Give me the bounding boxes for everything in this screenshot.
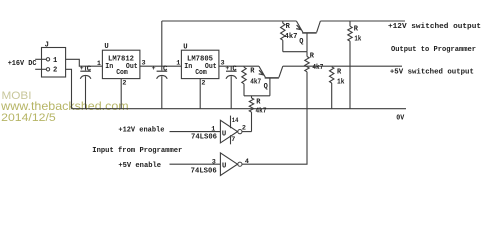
wire +12V rail left (162, 20, 297, 22)
inverter U3A pin 14 stub (230, 116, 232, 129)
svg-text:1: 1 (97, 60, 101, 68)
svg-text:In: In (184, 63, 192, 71)
svg-text:74LS06: 74LS06 (191, 168, 217, 176)
regulator U2 designator (183, 43, 187, 51)
svg-text:4: 4 (245, 158, 249, 166)
inverter U3B 74LS06 triangle (220, 153, 242, 176)
svg-text:2: 2 (53, 67, 57, 75)
inverter U3A label U (222, 130, 226, 138)
connector J pin 1 circle (46, 58, 49, 61)
svg-text:+12V switched output: +12V switched output (388, 23, 481, 31)
svg-text:1k: 1k (354, 36, 361, 44)
svg-text:Q: Q (264, 83, 268, 91)
resistor R2 value 4k7 (312, 64, 323, 72)
inverter U3A name 74LS06 (191, 134, 217, 142)
transistor Q2 collector (279, 66, 283, 77)
regulator U2 pin 2 label (201, 79, 205, 87)
transistor Q1 designator (299, 38, 303, 46)
svg-text:R: R (337, 68, 342, 76)
svg-text:U: U (222, 130, 226, 138)
svg-text:R: R (256, 99, 261, 107)
resistor R6 value 1k (337, 79, 345, 87)
svg-text:www.thebackshed.com: www.thebackshed.com (0, 99, 129, 113)
svg-text:1k: 1k (337, 79, 345, 87)
resistor R5 1k zigzag (348, 21, 352, 109)
transistor Q1 emitter arrow (296, 25, 301, 30)
svg-text:Input from Programmer: Input from Programmer (92, 147, 182, 155)
svg-text:+: + (80, 65, 84, 72)
regulator U2 pin 1 label (176, 60, 180, 68)
svg-text:7: 7 (231, 136, 235, 144)
resistor R5 label R (354, 25, 359, 33)
wire U1 Out to U2 In (140, 65, 182, 67)
wire 0V to pin 2 (35, 68, 46, 70)
resistor R2 label R (310, 53, 315, 61)
label +5V enable (118, 162, 161, 170)
inverter U3B pin 3 label (212, 158, 216, 166)
svg-text:74LS06: 74LS06 (191, 134, 217, 142)
ground rail 0V (72, 108, 407, 110)
svg-text:Q: Q (299, 38, 303, 46)
regulator U1 Out (126, 63, 138, 71)
connector J pin 1 label (53, 57, 58, 65)
svg-text:2014/12/5: 2014/12/5 (1, 112, 56, 124)
svg-text:C: C (163, 65, 168, 73)
resistor R3 4k7 zigzag (242, 66, 246, 96)
inverter U3A pin 7 stub (230, 135, 232, 144)
label Input from Programmer (92, 147, 182, 155)
wire +16V to pin 1 (35, 58, 46, 60)
svg-text:4k7: 4k7 (256, 108, 267, 116)
svg-text:2: 2 (201, 79, 205, 87)
connector J pin 2 circle (46, 68, 49, 71)
label +12V enable (118, 126, 164, 134)
regulator U2 value LM7805 (187, 56, 213, 64)
svg-text:R: R (286, 23, 291, 31)
svg-text:U: U (104, 43, 108, 51)
svg-text:+5V enable: +5V enable (118, 162, 161, 170)
wire +5V enable input (170, 163, 221, 165)
regulator U1 value LM7812 (108, 56, 134, 64)
inverter U3A pin 2 label (242, 124, 246, 132)
svg-text:C: C (87, 65, 92, 73)
wire Q1 base lead (306, 33, 308, 52)
inverter U3A pin 14 label (232, 117, 239, 125)
label 0V (396, 115, 404, 123)
svg-text:0V: 0V (396, 115, 404, 123)
inverter U3A 74LS06 triangle (220, 120, 242, 143)
resistor R4 label R (256, 99, 261, 107)
watermark 2014/12/5 (1, 112, 56, 124)
svg-text:Output to Programmer: Output to Programmer (391, 46, 476, 54)
resistor R3 value 4k7 (250, 79, 261, 87)
svg-text:C: C (232, 65, 237, 73)
resistor R3 label R (250, 68, 255, 76)
resistor R5 value 1k (354, 36, 361, 44)
regulator U2 In (184, 63, 192, 71)
regulator U1 designator (104, 43, 108, 51)
regulator U2 pin 3 label (221, 60, 225, 68)
transistor Q1 emitter (296, 21, 303, 32)
watermark MOBI (2, 90, 32, 102)
regulator U1 pin 2 label (122, 79, 126, 87)
svg-text:+16V DC: +16V DC (8, 60, 37, 68)
svg-text:Com: Com (116, 69, 128, 77)
connector J pin 2 label (53, 67, 57, 75)
resistor R6 label R (337, 68, 342, 76)
label Output to Programmer (391, 46, 476, 54)
regulator U1 pin 1 label (97, 60, 101, 68)
inverter U3B pin 4 label (245, 158, 249, 166)
regulator U1 box (102, 50, 139, 78)
svg-text:+5V switched output: +5V switched output (390, 68, 474, 76)
svg-text:Com: Com (195, 69, 207, 77)
regulator U1 pin 3 label (142, 60, 146, 68)
connector J designator (45, 41, 49, 49)
wire U2 Out (+5V) (219, 65, 259, 67)
resistor R1 label R (286, 23, 291, 31)
svg-text:R: R (354, 25, 359, 33)
svg-text:4k7: 4k7 (312, 64, 323, 72)
label +16V DC (8, 60, 37, 68)
wire J pin1 to LM7812 In (66, 59, 103, 66)
svg-text:J: J (45, 41, 49, 49)
svg-text:R: R (310, 53, 315, 61)
wire U3B output to R2 (242, 163, 307, 165)
label +12V switched output (388, 23, 481, 31)
resistor R6 1k zigzag (330, 67, 334, 109)
svg-text:+12V enable: +12V enable (118, 126, 164, 134)
wire Q2 base lead (269, 78, 271, 96)
wire +12V rail right (320, 20, 405, 22)
inverter U3B name 74LS06 (191, 168, 217, 176)
svg-text:1: 1 (53, 57, 58, 65)
wire +5V switched line (283, 65, 402, 67)
wire U2 Com to ground (199, 79, 201, 109)
resistor R4 4k7 zigzag (249, 96, 253, 132)
wire Q2 base loop (244, 95, 270, 97)
svg-text:1: 1 (176, 60, 180, 68)
regulator U2 box (181, 50, 219, 78)
svg-text:+: + (152, 65, 156, 72)
svg-text:R: R (250, 68, 255, 76)
svg-text:4k7: 4k7 (285, 33, 298, 41)
inverter U3B label U (222, 163, 226, 171)
wire Q1 base loop (283, 51, 307, 53)
connector J box (42, 48, 66, 78)
svg-text:1: 1 (211, 126, 215, 134)
wire +12V enable input (170, 131, 221, 133)
wire J pin2 down to 0V rail (66, 69, 72, 108)
inverter U3A pin 7 label (231, 136, 235, 144)
transistor Q1 collector (317, 21, 321, 32)
transistor Q2 designator (264, 83, 268, 91)
wire U3A output to R4 (242, 131, 252, 133)
label +5V switched output (390, 68, 474, 76)
regulator U2 Out (205, 63, 217, 71)
svg-text:U: U (222, 163, 226, 171)
transistor Q2 emitter arrow (259, 70, 264, 75)
resistor R4 value 4k7 (256, 108, 267, 116)
svg-text:2: 2 (122, 79, 126, 87)
resistor R1 value 4k7 (285, 33, 298, 41)
resistor R2 4k7 zigzag (305, 52, 309, 165)
svg-text:14: 14 (232, 117, 239, 125)
svg-text:+: + (225, 65, 229, 72)
wire U1 Com to ground (120, 79, 122, 109)
regulator U1 Com (116, 69, 128, 77)
svg-text:3: 3 (212, 158, 216, 166)
transistor Q1 base bar (302, 32, 316, 34)
svg-text:In: In (105, 63, 113, 71)
regulator U2 Com (195, 69, 207, 77)
capacitor C1 (80, 65, 92, 109)
inverter U3A pin 1 label (211, 126, 215, 134)
svg-text:U: U (183, 43, 187, 51)
transistor Q2 emitter (259, 66, 266, 77)
capacitor C3 (225, 65, 237, 109)
transistor Q2 base bar (265, 77, 279, 79)
regulator U1 In (105, 63, 113, 71)
capacitor C2 (152, 65, 168, 109)
resistor R1 4k7 zigzag (281, 21, 285, 52)
node +12V riser (161, 21, 163, 66)
svg-text:4k7: 4k7 (250, 79, 261, 87)
watermark www.thebackshed.com (0, 99, 129, 113)
